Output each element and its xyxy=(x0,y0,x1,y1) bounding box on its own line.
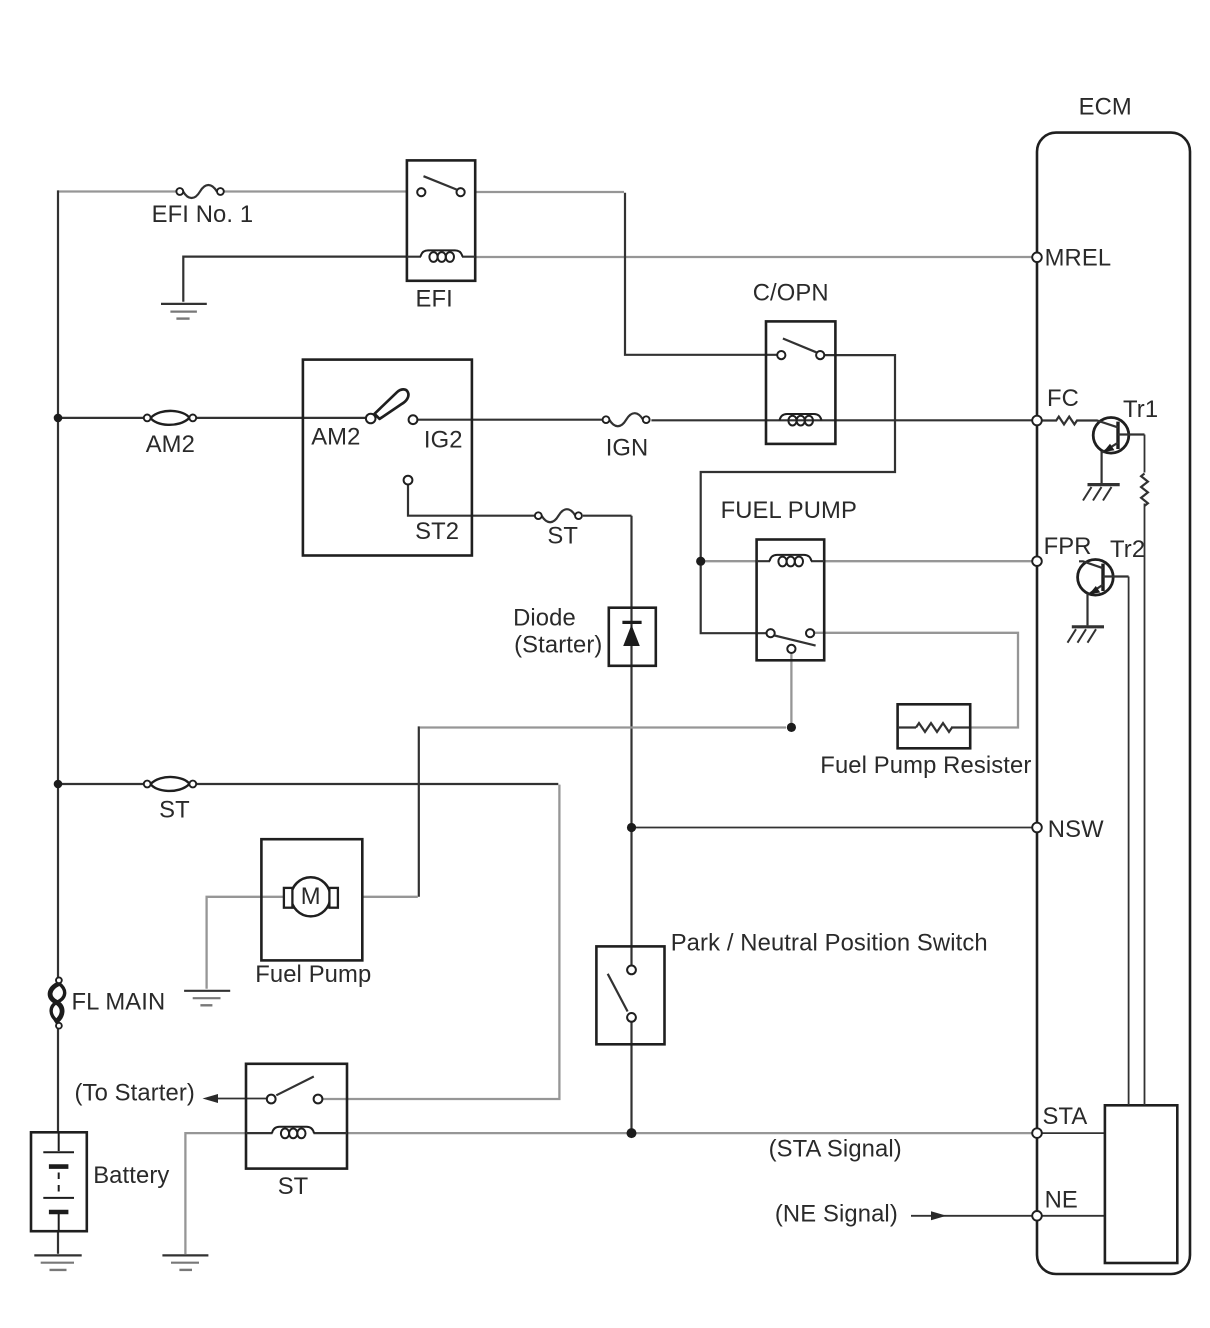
relay FUEL PUMP switch contacts and arm xyxy=(767,629,775,637)
relay ST coil xyxy=(246,1127,347,1139)
svg-text:(Starter): (Starter) xyxy=(514,632,602,659)
transistor Q Tr1 xyxy=(1082,418,1145,484)
resistor zigzag xyxy=(916,723,952,732)
svg-text:Tr2: Tr2 xyxy=(1110,536,1145,563)
svg-text:NE: NE xyxy=(1045,1187,1078,1214)
svg-text:Fuel Pump: Fuel Pump xyxy=(255,961,371,988)
ground Tr2 emitter xyxy=(1068,627,1105,643)
wire node C to resistor left lead (under Fuel Pump Resister box) xyxy=(899,726,916,728)
resistor FC base (small zigzag) xyxy=(1042,417,1082,425)
svg-text:Battery: Battery xyxy=(93,1162,169,1189)
relay ST switch contacts and arm xyxy=(267,1095,276,1104)
wire IG2 contact to IGN fuse xyxy=(417,419,602,421)
svg-text:MREL: MREL xyxy=(1045,245,1112,272)
svg-text:IGN: IGN xyxy=(606,434,649,461)
wire node B to fuel pump relay coil (gray) xyxy=(704,560,756,562)
svg-text:FC: FC xyxy=(1047,385,1079,412)
wire vertical drop to fuel pump motor xyxy=(418,726,420,896)
junction node NSW xyxy=(627,823,636,832)
terminal FPR xyxy=(1032,556,1042,566)
wire EFI No.1 fuse to EFI relay xyxy=(224,190,406,192)
svg-text:FUEL PUMP: FUEL PUMP xyxy=(721,497,857,524)
svg-text:C/OPN: C/OPN xyxy=(753,280,829,307)
wire fuel pump motor right lead xyxy=(363,896,418,898)
svg-text:M: M xyxy=(301,883,321,910)
svg-text:EFI: EFI xyxy=(416,286,453,313)
wire STA terminal into ECM block xyxy=(1042,1132,1104,1134)
wire node B down to fuel pump relay switch contact xyxy=(701,561,767,633)
wire AM2 feed: bus to AM2 fuse to ignition switch AM2 contact xyxy=(58,417,144,419)
ground Tr1 emitter xyxy=(1083,485,1120,501)
svg-text:FL MAIN: FL MAIN xyxy=(72,989,166,1016)
wire ST relay coil left lead to ground xyxy=(185,1133,245,1254)
wire top feed from battery bus to EFI No.1 fuse xyxy=(58,190,176,192)
diode symbol xyxy=(623,625,640,646)
wire ST2 contact down and right to ST fuse xyxy=(408,484,535,515)
wire park switch bottom contact down to STA signal node xyxy=(630,1022,632,1131)
wire NE signal line with arrow xyxy=(911,1215,1033,1217)
wire node C left to fuel pump drop xyxy=(420,726,786,728)
svg-text:Tr1: Tr1 xyxy=(1123,396,1158,423)
park / neutral position switch box xyxy=(596,946,664,1044)
resistor vertical inside ECM xyxy=(1141,474,1148,506)
relay C/OPN switch contacts and arm xyxy=(777,351,785,359)
svg-text:STA: STA xyxy=(1043,1103,1088,1130)
wire ST relay switch left contact to (To Starter) arrow xyxy=(215,1098,267,1100)
svg-text:Park / Neutral Position Switch: Park / Neutral Position Switch xyxy=(671,929,988,956)
ignition switch AM2 contact xyxy=(366,414,376,424)
wire fuel pump relay switch output to resistor right lead xyxy=(814,633,1018,728)
relay C/OPN coil xyxy=(780,414,822,426)
wire battery negative to ground xyxy=(57,1231,59,1254)
svg-text:Diode: Diode xyxy=(513,604,576,631)
wire EFI relay switch output to node A xyxy=(476,191,624,193)
diode (starter) box xyxy=(609,608,656,666)
terminal FC xyxy=(1032,416,1042,426)
svg-text:(To Starter): (To Starter) xyxy=(75,1080,195,1107)
ECM internal block xyxy=(1105,1105,1177,1263)
svg-text:EFI No. 1: EFI No. 1 xyxy=(152,201,254,228)
wire fuel pump motor left lead to ground xyxy=(207,897,285,989)
ignition switch IG2 contact xyxy=(409,415,418,424)
motor M circle xyxy=(291,877,330,916)
relay FUEL PUMP coil xyxy=(757,555,825,566)
fuse ST (fusible link, lower) xyxy=(144,777,196,791)
wire ST fuse right, down to ST relay switch contact xyxy=(196,783,558,785)
ignition switch ST2 contact xyxy=(404,476,413,485)
junction node C (resistor) xyxy=(787,723,796,732)
ground below ST relay coil xyxy=(162,1255,208,1270)
wire vertical through diode down to park switch top contact xyxy=(630,516,632,966)
wire EFI relay coil to MREL terminal xyxy=(476,256,1032,258)
ground below fuel pump xyxy=(184,991,230,1006)
terminal STA xyxy=(1032,1128,1042,1138)
relay EFI box xyxy=(407,160,475,280)
relay C/OPN box xyxy=(766,321,835,444)
park switch contacts and arm xyxy=(627,966,636,975)
wire left battery bus (upper) xyxy=(57,190,59,977)
svg-text:ECM: ECM xyxy=(1079,94,1132,121)
terminal NE xyxy=(1032,1211,1042,1221)
relay ST box xyxy=(246,1064,347,1169)
fuse IGN xyxy=(603,413,650,426)
fuse EFI No. 1 xyxy=(176,185,223,198)
svg-text:ST: ST xyxy=(278,1173,309,1200)
svg-text:ST: ST xyxy=(547,523,578,550)
wire EFI coil left lead to ground xyxy=(183,257,406,302)
wire NSW node to NSW terminal xyxy=(632,827,1033,829)
junction node ST feed xyxy=(54,780,63,789)
relay EFI switch contacts and arm xyxy=(417,188,425,196)
svg-text:NSW: NSW xyxy=(1048,816,1104,843)
resistor box Fuel Pump Resister xyxy=(898,704,971,748)
wire C/OPN switch output loop down to fuel pump relay coil node xyxy=(701,355,895,557)
svg-text:(STA Signal): (STA Signal) xyxy=(769,1136,902,1163)
ignition switch box xyxy=(303,360,472,556)
svg-text:AM2: AM2 xyxy=(311,423,360,450)
junction node B (fuel pump relay coil) xyxy=(696,557,705,566)
wire ST feed: bus to ST fuse xyxy=(58,783,144,785)
battery box xyxy=(31,1132,87,1231)
terminal MREL xyxy=(1032,252,1042,262)
transistor Q Tr2 xyxy=(1078,560,1129,626)
wire ST fuse to diode vertical xyxy=(583,515,632,517)
svg-text:ST: ST xyxy=(159,797,190,824)
relay FUEL PUMP box xyxy=(757,540,825,661)
wire NE terminal into ECM block xyxy=(1042,1215,1104,1217)
svg-text:(NE Signal): (NE Signal) xyxy=(775,1200,898,1227)
wire STA signal line: ST relay coil to STA terminal xyxy=(348,1132,1033,1134)
ground below battery xyxy=(34,1255,81,1270)
junction node STA signal xyxy=(627,1128,637,1138)
wire resistor right lead inside box xyxy=(951,726,969,728)
wire left bus FL MAIN to battery xyxy=(57,1029,59,1131)
ECM box xyxy=(1037,133,1190,1274)
wire Tr1 collector down to resistor R to internal block xyxy=(1144,435,1146,1106)
svg-text:FPR: FPR xyxy=(1044,533,1092,560)
wire node A down and to C/OPN switch xyxy=(625,193,777,355)
wire fuel pump relay coil to FPR terminal xyxy=(825,560,1032,562)
svg-text:Fuel Pump Resister: Fuel Pump Resister xyxy=(820,752,1031,779)
motor brushes xyxy=(284,888,293,908)
wire IGN fuse to C/OPN coil to FC terminal xyxy=(651,419,1032,421)
ground below EFI coil xyxy=(161,304,207,319)
fuse AM2 (fusible link) xyxy=(144,411,196,425)
relay EFI coil xyxy=(407,250,475,262)
arrow To Starter xyxy=(203,1094,219,1103)
fuse ST (ignition) xyxy=(535,509,582,522)
wire fuel pump relay center contact down to node C xyxy=(790,653,792,723)
ignition switch key lever xyxy=(375,389,409,419)
battery cells xyxy=(43,1133,74,1231)
arrow NE signal xyxy=(931,1211,947,1220)
svg-text:AM2: AM2 xyxy=(146,431,195,458)
fuel pump motor box xyxy=(261,839,362,960)
svg-text:ST2: ST2 xyxy=(415,518,459,545)
junction node AM2 feed xyxy=(54,414,63,423)
terminal NSW xyxy=(1032,823,1042,833)
wire Tr2 collector down to internal block xyxy=(1128,577,1130,1106)
fuse FL MAIN (fusible link) xyxy=(50,977,65,1028)
svg-text:IG2: IG2 xyxy=(424,426,463,453)
